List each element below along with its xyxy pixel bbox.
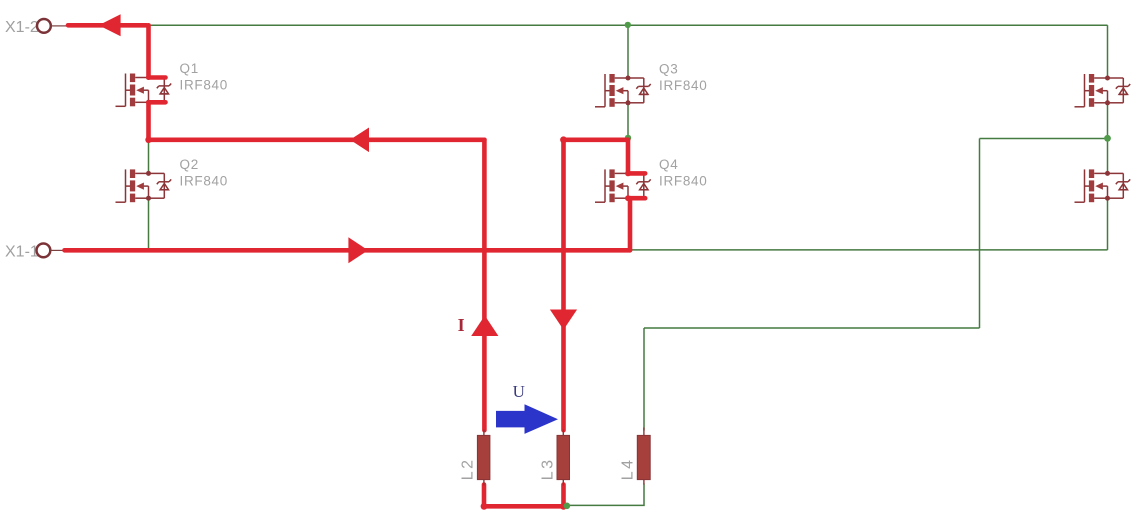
wire: Q2 drain up to net A: [148, 140, 150, 173]
junction dot right bridge mid (green): [1104, 135, 1111, 142]
wire: X1-1 highlighted rail (red): [65, 248, 631, 253]
junction dot net B left end: [560, 136, 567, 143]
wire: Q1 source down to net A (red): [146, 102, 151, 140]
wire: Q6 source down to X1-1 green rail: [1107, 198, 1109, 250]
wire: L3 bottom vertical (red): [561, 485, 566, 507]
wire: net B vertical down to L3 (red): [561, 140, 566, 430]
current arrow up (I) on L2 branch: [471, 316, 498, 337]
svg-text:Q1: Q1: [180, 61, 199, 76]
wire: Q4 source stub (red): [628, 196, 645, 201]
inductor L2: [459, 430, 490, 486]
wire: mid junction to Q6 drain: [1107, 139, 1109, 174]
svg-text:U: U: [513, 382, 525, 401]
wire: L3 bottom to L4 bottom (green): [567, 484, 644, 506]
svg-text:I: I: [458, 315, 465, 335]
transistor Q6 (right bottom): [1075, 169, 1131, 202]
inductor L3: [539, 430, 569, 486]
svg-text:L3: L3: [539, 458, 556, 481]
transistor Q2: [116, 157, 228, 202]
current arrow on X1-1 rail (right): [348, 237, 368, 263]
wire: right bridge output vertical: [979, 139, 981, 329]
svg-text:X1-2: X1-2: [5, 19, 39, 36]
wire: right bridge output horizontal to mid junction: [980, 138, 1108, 140]
junction dot bottom L3: [560, 503, 567, 510]
terminal X1-1: [5, 244, 63, 261]
voltage arrow U (blue): [496, 404, 558, 434]
junction dot bottom green at L3: [564, 503, 571, 510]
wire: Q5 source to mid junction: [1107, 103, 1109, 139]
wire: L4 top horizontal run: [644, 327, 980, 329]
transistor Q1: [116, 61, 228, 106]
inductor L4: [619, 428, 650, 485]
junction bump Q4 source pin: [625, 195, 631, 201]
wire: X1-2 highlighted feed (red): [68, 25, 149, 77]
svg-text:IRF840: IRF840: [180, 78, 228, 93]
wire: net B down to Q4 drain (red): [626, 140, 631, 174]
junction bump Q4 drain pin: [625, 171, 631, 177]
junction dot net A at Q1/Q2: [145, 137, 151, 143]
svg-text:IRF840: IRF840: [180, 174, 228, 189]
svg-text:L4: L4: [619, 458, 636, 481]
junction dot mid node at Q3/Q4 (green): [625, 135, 631, 141]
wire: X1-1 rail green continuation to Q6 source: [632, 249, 1108, 251]
wire: L2 bottom vertical (red): [482, 485, 487, 507]
terminal X1-2: [5, 19, 66, 36]
junction dot top rail at Q3 (green): [625, 22, 631, 28]
wire: Q1 drain stub (red): [148, 75, 165, 80]
wire: Q5 drain to top rail: [1107, 25, 1109, 78]
wire: Q1 source stub (red): [148, 100, 165, 105]
wire: net A horizontal (red): [149, 138, 485, 143]
current arrow on net A (left): [350, 128, 369, 153]
wire: net B horizontal segment (red): [564, 138, 629, 143]
transistor Q4: [595, 157, 707, 202]
wire: Q3 drain to top rail: [627, 25, 629, 78]
wire: Q4 drain stub (red): [628, 171, 645, 176]
transistor Q3: [595, 62, 707, 107]
wire: top supply rail (green): [150, 24, 1108, 26]
svg-text:Q4: Q4: [659, 157, 678, 172]
wire: Q3 source down to mid node: [627, 103, 629, 139]
svg-text:L2: L2: [459, 458, 476, 481]
current arrow into X1-2 (left): [99, 14, 121, 36]
current arrow down on L3 branch: [550, 310, 577, 330]
wire: L4 top vertical to inductor: [643, 328, 645, 431]
wire: Q2 source down to X1-1 rail: [148, 198, 150, 250]
svg-text:Q3: Q3: [659, 62, 678, 77]
junction dot bottom left: [481, 503, 488, 510]
svg-text:IRF840: IRF840: [659, 78, 707, 93]
svg-text:X1-1: X1-1: [5, 244, 39, 261]
wire: net A vertical down to L2 (red): [482, 140, 487, 430]
transistor Q5 (right top): [1075, 74, 1131, 107]
wire: Q4 source down to X1-1 (red): [628, 198, 633, 250]
svg-text:IRF840: IRF840: [659, 174, 707, 189]
svg-text:Q2: Q2: [180, 157, 199, 172]
wire: bottom link L2-L3 (red): [484, 504, 564, 509]
